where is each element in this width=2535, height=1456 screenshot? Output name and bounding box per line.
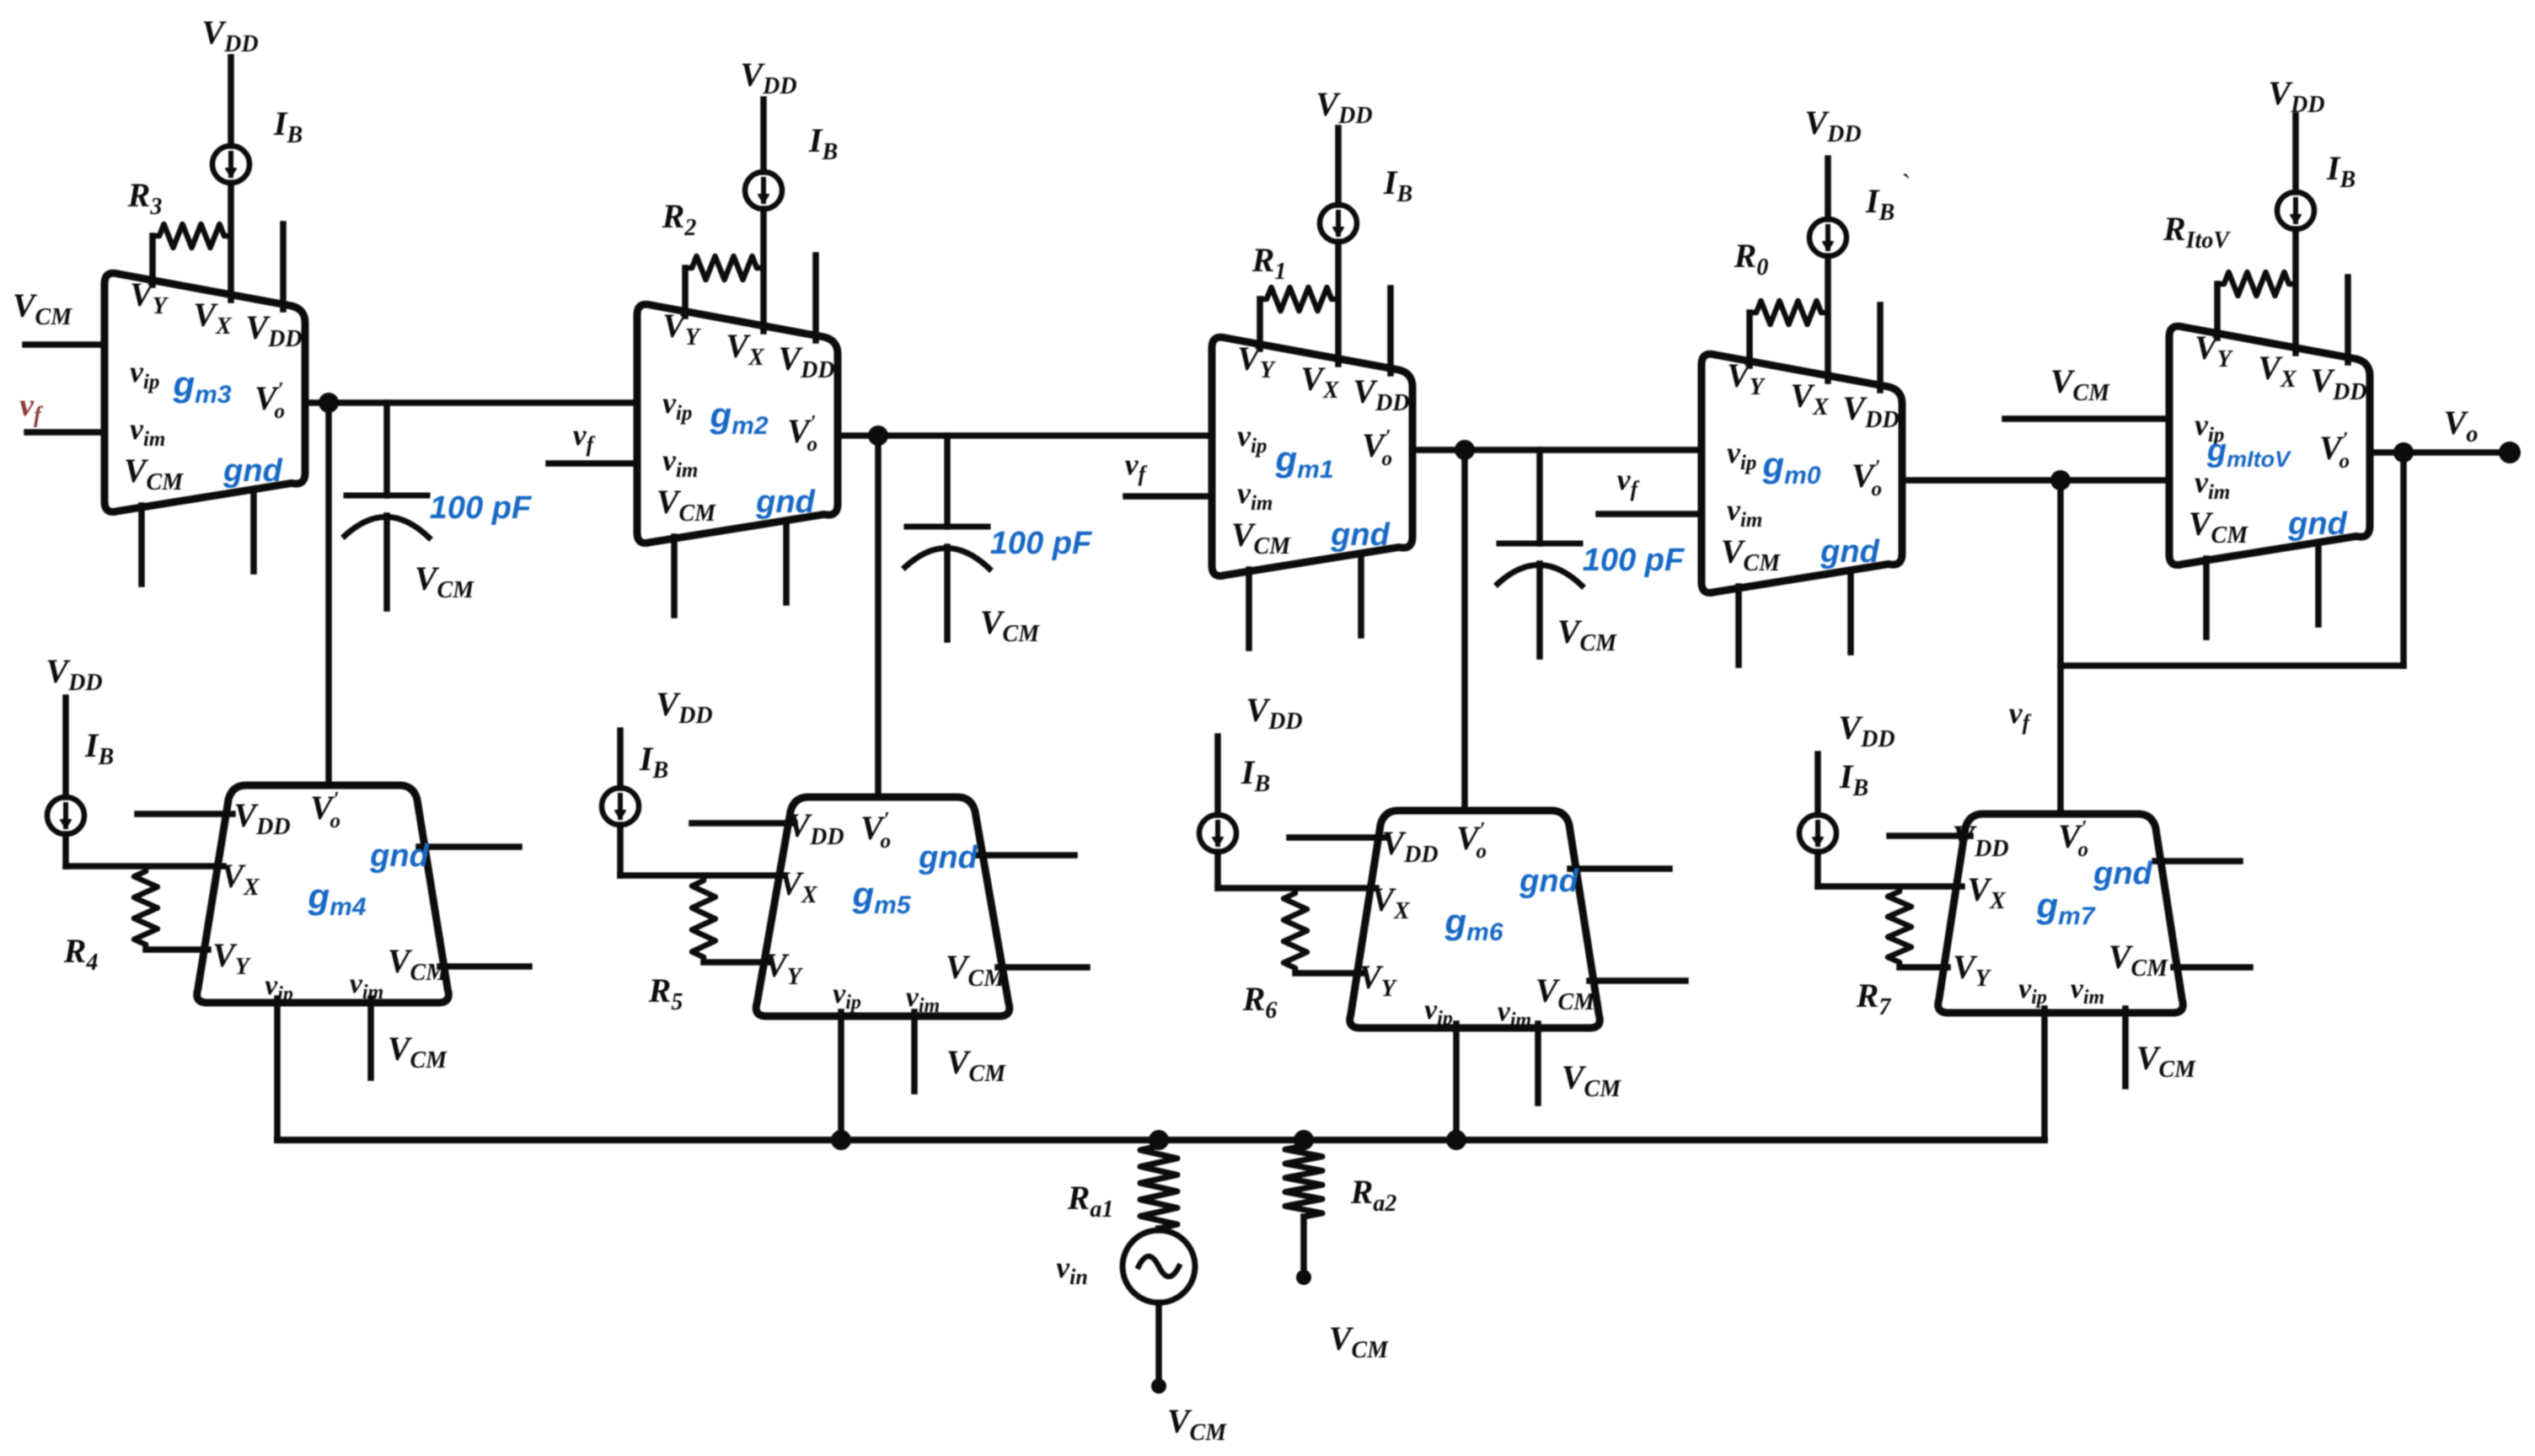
- svg-text:gnd: gnd: [755, 484, 815, 520]
- svg-text:gnd: gnd: [918, 840, 978, 875]
- svg-text:`: `: [1901, 169, 1911, 201]
- svg-text:V′o: V′o: [2058, 817, 2088, 861]
- svg-text:gnd: gnd: [222, 453, 282, 489]
- svg-text:gnd: gnd: [1820, 534, 1879, 570]
- svg-text:V′o: V′o: [787, 412, 817, 456]
- svg-text:V′o: V′o: [255, 379, 285, 423]
- svg-text:gnd: gnd: [1519, 864, 1578, 899]
- svg-text:V′o: V′o: [860, 809, 891, 853]
- svg-text:gnd: gnd: [2287, 506, 2347, 542]
- svg-text:gnd: gnd: [1330, 517, 1390, 553]
- svg-text:gnd: gnd: [369, 838, 429, 874]
- svg-text:V′o: V′o: [2319, 429, 2350, 473]
- svg-text:V′o: V′o: [1852, 457, 1882, 500]
- svg-text:100 pF: 100 pF: [990, 526, 1093, 561]
- svg-text:V′o: V′o: [310, 789, 340, 832]
- svg-text:V′o: V′o: [1456, 819, 1487, 863]
- svg-text:V′o: V′o: [1362, 426, 1392, 470]
- svg-text:100 pF: 100 pF: [430, 490, 533, 526]
- svg-text:gnd: gnd: [2093, 856, 2152, 891]
- svg-text:100 pF: 100 pF: [1583, 543, 1686, 578]
